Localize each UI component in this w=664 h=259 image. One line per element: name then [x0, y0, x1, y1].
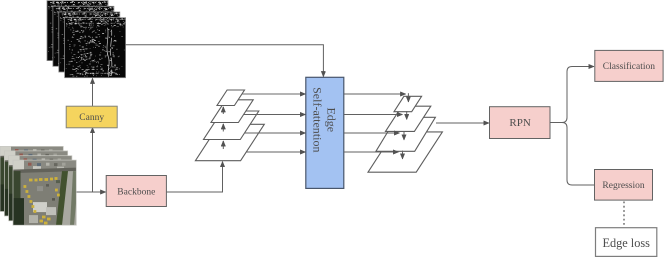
input aerial image stack (4 photos)	[0, 144, 66, 213]
wire: Canny up to edge-map stack	[92, 78, 94, 106]
svg-text:Canny: Canny	[79, 113, 104, 123]
Regression box	[595, 170, 653, 201]
up arrow between left layers 3-4	[222, 141, 224, 149]
top-down arrow on right pyramid layer 2	[406, 111, 408, 119]
top-down arrow on right pyramid layer 3	[403, 132, 405, 140]
dotted wire: Regression to Edge loss	[623, 202, 625, 227]
left pyramid layer P2 (top/smallest)	[217, 90, 245, 106]
svg-text:Edge loss: Edge loss	[602, 236, 650, 250]
svg-text:Classification: Classification	[603, 61, 655, 72]
top-down arrow on right pyramid layer 1	[407, 93, 409, 102]
wires: attention box to right pyramid	[344, 93, 406, 95]
Edge loss box	[596, 228, 657, 257]
Classification box	[595, 50, 663, 81]
wire: edge-map stack to Edge Self-attention top	[126, 45, 324, 77]
svg-text:RPN: RPN	[509, 117, 530, 129]
right pyramid layer 2	[386, 106, 431, 131]
wire: RPN to Regression	[550, 123, 594, 186]
svg-text:Backbone: Backbone	[117, 188, 155, 198]
wire: branch up to Canny	[92, 128, 94, 192]
right pyramid layer 3	[376, 117, 436, 151]
right pyramid layer top/smallest	[394, 96, 422, 111]
wire: right pyramid to RPN	[436, 122, 489, 124]
up arrow between left layers 2-3	[222, 124, 224, 132]
wires: left pyramid to attention box	[242, 93, 306, 95]
Canny box	[66, 106, 117, 128]
svg-text:Regression: Regression	[602, 181, 644, 191]
RPN box	[490, 107, 551, 139]
canny edge-map stack (4 images)	[47, 1, 109, 61]
Edge Self-attention box	[306, 77, 344, 188]
svg-text:Edge: Edge	[324, 107, 338, 132]
wire: photo stack to Backbone	[77, 191, 106, 193]
wire: Backbone to left pyramid bottom	[167, 162, 223, 192]
right feature pyramid: layer bottom/largest	[368, 96, 442, 172]
left feature pyramid: layer P5 (bottom/largest)	[195, 90, 264, 161]
Backbone box	[106, 176, 166, 207]
left pyramid layer P3	[211, 100, 253, 123]
svg-text:Self-attention: Self-attention	[311, 87, 325, 152]
wire: RPN to Classification	[550, 67, 594, 123]
top-down arrow on right pyramid layer 4	[402, 151, 404, 159]
up arrow between left layers 1-2	[222, 107, 224, 114]
left pyramid layer P4	[204, 111, 259, 140]
